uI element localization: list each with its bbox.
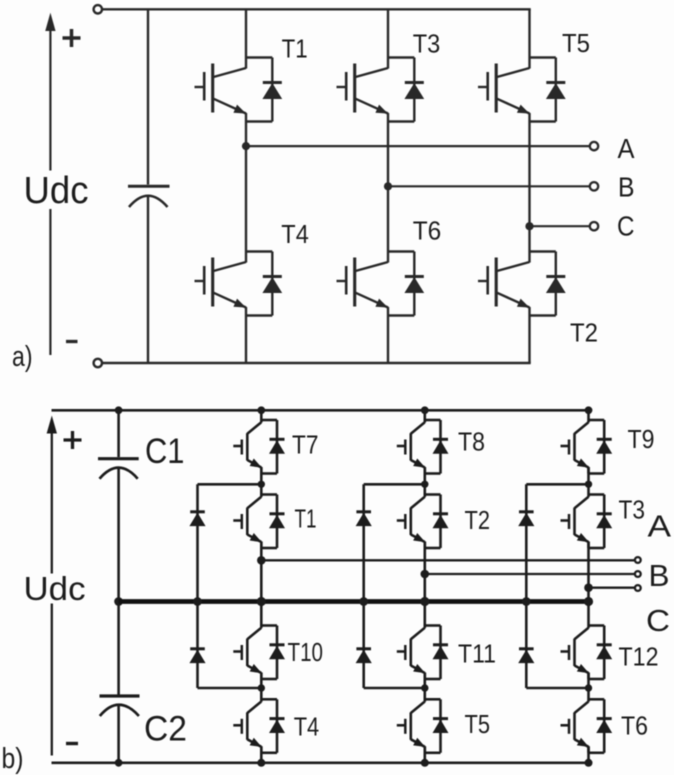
wire phase B output (b) (425, 573, 635, 575)
capacitor DC-link (a): lower wire (147, 196, 149, 363)
svg-text:B: B (649, 558, 670, 593)
node phase B output (b) (421, 570, 430, 579)
transistor T2 (IGBT with antiparallel diode) (397, 495, 448, 549)
svg-text:T10: T10 (288, 639, 324, 667)
Udc arrow (a) (46, 15, 55, 356)
node clamp top junction leg B (b) (421, 481, 428, 488)
node clamp bottom junction leg C (b) (585, 684, 592, 691)
wire bottom DC rail (a) (102, 362, 531, 364)
node phase A output (b) (257, 556, 266, 565)
wire leg C between T9 and T3 (b) (587, 467, 590, 497)
terminal DC- (a, open circle) (94, 359, 102, 367)
transistor T9 (IGBT with antiparallel diode) (561, 420, 612, 474)
wire leg A between T7 and T1 (b) (260, 467, 263, 497)
wire leg B middle (a) (387, 122, 389, 252)
terminal C (b) (635, 585, 641, 591)
node clamp top junction leg C (b) (585, 481, 592, 488)
svg-text:T1: T1 (295, 506, 317, 534)
svg-text:T6: T6 (413, 218, 442, 246)
transistor T1 (IGBT with antiparallel diode) (195, 58, 282, 122)
transistor T11 (IGBT with antiparallel diode) (397, 626, 448, 680)
wire leg B to bottom rail (b) (423, 746, 426, 763)
wire clamp branch vertical leg C (b) (525, 484, 528, 688)
node top rail leg B (b) (421, 406, 429, 414)
transistor T12 (IGBT with antiparallel diode) (561, 626, 612, 680)
wire leg C upper (a) (528, 9, 530, 57)
node clamp top junction leg A (b) (258, 481, 265, 488)
wire DC-link capacitor bus upper (b) (117, 410, 120, 457)
node phase C output (b) (584, 583, 593, 592)
svg-text:T6: T6 (621, 713, 648, 741)
capacitor C1 top plate (98, 457, 139, 460)
transistor T6 (IGBT with antiparallel diode) (337, 252, 424, 316)
terminal B (b) (635, 571, 641, 577)
svg-text:T8: T8 (458, 429, 485, 457)
wire leg C phase-output segment (b) (587, 542, 590, 629)
wire bottom DC rail (b) (52, 761, 589, 764)
svg-text:T5: T5 (465, 711, 491, 739)
terminal C (a, open circle) (590, 222, 598, 230)
node leg A crossing neutral (b) (257, 597, 266, 606)
svg-text:T4: T4 (281, 221, 309, 249)
node clamp bottom junction leg B (b) (421, 684, 428, 691)
svg-text:T3: T3 (619, 496, 646, 524)
svg-text:Udc: Udc (24, 170, 89, 212)
svg-text:B: B (618, 172, 635, 203)
transistor T5 (IGBT with antiparallel diode) (478, 58, 565, 122)
diode D3 (clamping diode) (519, 512, 534, 526)
transistor T1 (IGBT with antiparallel diode) (233, 495, 284, 549)
svg-text:A: A (618, 133, 636, 164)
svg-text:a): a) (12, 341, 33, 373)
svg-text:T3: T3 (413, 30, 441, 58)
terminal DC+ (a, open circle) (94, 5, 102, 13)
wire leg A upper (a) (245, 9, 247, 57)
diode D2 (clamping diode) (356, 512, 371, 526)
Udc arrow (b) (47, 417, 56, 755)
wire clamp branch bottom connector leg B (b) (364, 687, 425, 690)
node leg C crossing neutral (b) (584, 597, 593, 606)
node leg B crossing neutral (b) (420, 597, 429, 606)
wire leg A to bottom rail (b) (260, 746, 263, 763)
wire leg B between T11 and T5 (b) (423, 673, 426, 702)
wire leg A phase-output segment (b) (260, 542, 263, 629)
node top rail leg A (b) (257, 406, 265, 414)
node clamp branch on neutral leg A (b) (193, 597, 202, 606)
svg-text:T2: T2 (570, 320, 598, 348)
wire clamp branch bottom connector leg A (b) (198, 687, 262, 690)
svg-text:C: C (646, 603, 670, 638)
transistor T3 (IGBT with antiparallel diode) (337, 58, 424, 122)
terminal B (a, open circle) (590, 182, 598, 190)
node phase A (a) (242, 142, 250, 150)
wire leg A between T10 and T4 (b) (260, 673, 263, 702)
terminal A (b) (635, 557, 641, 563)
transistor T7 (IGBT with antiparallel diode) (233, 420, 284, 474)
neutral bus (thick midpoint line, b) (119, 599, 589, 604)
wire leg C middle (a) (528, 122, 530, 252)
transistor T8 (IGBT with antiparallel diode) (397, 420, 448, 474)
transistor T6 (IGBT with antiparallel diode) (561, 699, 612, 753)
svg-text:Udc: Udc (24, 570, 86, 607)
wire top DC rail (a) (102, 8, 531, 10)
node bottom rail leg C (b) (585, 759, 593, 767)
svg-text:T5: T5 (562, 30, 590, 58)
capacitor DC-link (a): upper wire (147, 9, 149, 184)
wire leg B phase-output segment (b) (423, 542, 426, 629)
wire leg B lower (a) (387, 316, 389, 364)
diode D5 (clamping diode) (356, 649, 371, 663)
diode D1 (clamping diode) (190, 512, 205, 526)
node neutral / capacitor midpoint (b) (114, 597, 123, 606)
svg-text:T12: T12 (619, 644, 659, 672)
wire leg A middle (a) (245, 122, 247, 252)
svg-text:C2: C2 (144, 709, 187, 749)
wire leg A from top rail (b) (260, 410, 263, 422)
wire leg B from top rail (b) (423, 410, 426, 422)
transistor T10 (IGBT with antiparallel diode) (233, 626, 284, 680)
svg-text:C: C (617, 211, 635, 242)
wire clamp branch top connector leg A (b) (198, 483, 262, 486)
wire phase C output (a) (530, 225, 590, 227)
wire DC-link capacitor bus lower (b) (117, 706, 120, 763)
transistor T5 (IGBT with antiparallel diode) (397, 699, 448, 753)
svg-text:T11: T11 (458, 641, 496, 669)
svg-text:b): b) (2, 743, 24, 775)
wire leg C from top rail (b) (587, 410, 590, 422)
node top rail leg C (b) (585, 406, 593, 414)
capacitor DC-link (a): top plate (128, 185, 170, 188)
svg-text:T4: T4 (294, 713, 320, 741)
label - (b) (66, 742, 78, 745)
capacitor C2 curved plate (100, 705, 139, 716)
svg-text:T7: T7 (292, 432, 319, 460)
node bottom rail leg A (b) (257, 759, 265, 767)
capacitor C2 top plate (100, 694, 140, 697)
wire top DC rail (b) (52, 409, 590, 412)
svg-text:T1: T1 (282, 35, 308, 63)
wire clamp branch top connector leg C (b) (526, 483, 588, 486)
wire leg C between T12 and T6 (b) (587, 673, 590, 702)
wire clamp branch vertical leg B (b) (362, 484, 365, 688)
wire clamp branch top connector leg B (b) (364, 483, 425, 486)
transistor T4 (IGBT with antiparallel diode) (233, 699, 284, 753)
wire leg B between T8 and T2 (b) (423, 467, 426, 497)
wire leg B upper (a) (387, 9, 389, 57)
wire clamp branch bottom connector leg C (b) (526, 687, 588, 690)
wire leg C lower (a) (528, 316, 530, 364)
node clamp bottom junction leg A (b) (258, 684, 265, 691)
diode D4 (clamping diode) (190, 649, 205, 663)
label + (a) (63, 29, 81, 47)
svg-text:T9: T9 (628, 426, 655, 454)
capacitor DC-link (a): curved plate (129, 196, 168, 207)
wire leg C to bottom rail (b) (587, 746, 590, 763)
node phase C (a) (525, 222, 533, 230)
node clamp branch on neutral leg B (b) (359, 597, 368, 606)
capacitor C1 curved plate (100, 468, 138, 479)
svg-text:T2: T2 (465, 507, 491, 535)
wire phase C output (b) (589, 587, 636, 589)
transistor T3 (IGBT with antiparallel diode) (561, 495, 612, 549)
wire phase A output (b) (261, 559, 635, 561)
transistor T4 (IGBT with antiparallel diode) (195, 252, 282, 316)
terminal A (a, open circle) (590, 142, 598, 150)
svg-text:C1: C1 (145, 431, 185, 471)
wire DC-link capacitor bus middle (b) (117, 468, 120, 695)
transistor T2 (IGBT with antiparallel diode) (478, 252, 565, 316)
svg-text:A: A (648, 509, 672, 544)
wire phase A output (a) (246, 145, 590, 147)
node top rail / capacitor bus (b) (115, 406, 123, 414)
node phase B (a) (384, 182, 392, 190)
node bottom rail leg B (b) (421, 759, 429, 767)
wire leg A lower (a) (245, 316, 247, 364)
node clamp branch on neutral leg C (b) (522, 597, 531, 606)
label + (b) (64, 431, 82, 449)
label - (a) (66, 340, 78, 343)
wire clamp branch vertical leg A (b) (196, 484, 199, 688)
node bottom rail / capacitor bus (b) (115, 759, 123, 767)
diode D6 (clamping diode) (519, 649, 534, 663)
wire phase B output (a) (388, 185, 590, 187)
